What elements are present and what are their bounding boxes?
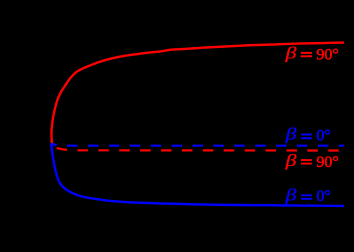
label beta=0 bottom (blue): [284, 186, 330, 205]
blue solid curve (beta=0): [51, 144, 344, 206]
svg-text:β: β: [284, 152, 296, 170]
red solid curve (beta=90): [52, 43, 345, 144]
svg-text:β: β: [284, 186, 296, 204]
blue dashed line (classical beta=0): [51, 144, 345, 146]
label beta=0 upper (blue): [284, 126, 330, 145]
label beta=90 top (red): [284, 45, 338, 64]
label beta=90 lower (red): [284, 152, 338, 171]
svg-text:β: β: [284, 126, 296, 144]
svg-text:0°: 0°: [316, 188, 330, 205]
svg-text:β: β: [284, 45, 296, 63]
svg-text:0°: 0°: [316, 127, 330, 144]
svg-text:90°: 90°: [316, 46, 338, 63]
red dashed line (classical beta=90): [51, 146, 344, 151]
svg-text:90°: 90°: [316, 154, 338, 171]
